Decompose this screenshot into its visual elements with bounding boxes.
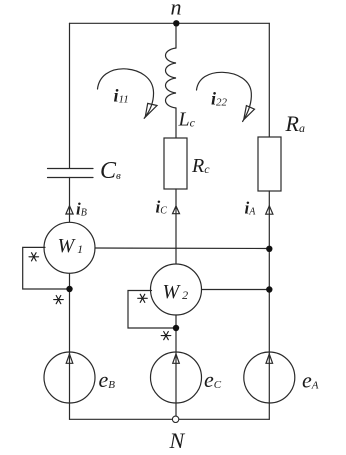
resistor Ra <box>258 137 281 191</box>
junction dot right rail at W2 wire <box>266 286 272 292</box>
wire resistor Ra to eA source <box>268 191 270 419</box>
arrow inside source eB <box>66 354 73 363</box>
wire top horizontal n rail <box>70 22 270 24</box>
capacitor Cv <box>48 169 94 178</box>
junction dot below W2 <box>173 325 179 331</box>
svg-text:Cв: Cв <box>100 158 121 184</box>
loop current arrow i22 arc <box>197 72 252 121</box>
asterisk mark W1 voltage terminal <box>29 253 39 261</box>
arrow current iB <box>66 206 73 214</box>
EMF source eB <box>44 352 95 403</box>
wire inductor Lc to resistor Rc <box>175 108 177 138</box>
resistor Rc <box>164 138 187 189</box>
wire middle branch n to inductor Lc <box>175 23 177 48</box>
svg-text:iB: iB <box>76 200 87 219</box>
svg-text:eC: eC <box>204 367 222 392</box>
junction dot below W1 <box>66 286 72 292</box>
svg-text:Ra: Ra <box>285 111 305 136</box>
arrow inside source eA <box>266 354 273 363</box>
loop current arrow i11 arc <box>98 69 154 119</box>
junction dot right rail at W1 wire <box>266 246 272 252</box>
loop current arrow i11 head <box>145 103 157 117</box>
wire capacitor Cv to wattmeter W1 <box>69 178 71 223</box>
svg-text:eB: eB <box>99 367 116 392</box>
wire left branch top (n rail to capacitor Cv) <box>69 23 71 168</box>
wire right branch top (n rail to resistor Ra) <box>268 23 270 137</box>
wire bottom horizontal N rail <box>70 418 270 420</box>
svg-text:i22: i22 <box>211 89 228 109</box>
wire W1 voltage coil bracket <box>23 247 70 289</box>
wire W1 current coil output to node A rail <box>95 247 269 250</box>
arrow inside source eC <box>173 354 180 363</box>
asterisk mark W2 current terminal <box>161 332 171 340</box>
EMF source eC <box>151 352 202 403</box>
asterisk mark W1 current terminal <box>54 296 64 304</box>
svg-text:Lc: Lc <box>178 109 196 131</box>
node n junction dot <box>173 20 179 26</box>
wattmeter W2 <box>151 264 202 315</box>
svg-text:iC: iC <box>156 198 168 217</box>
inductor Lc <box>166 48 177 108</box>
svg-text:n: n <box>171 0 182 20</box>
EMF source eA <box>244 352 295 403</box>
arrow current iA <box>266 206 273 214</box>
wire W2 current coil output to node A rail <box>202 289 270 291</box>
svg-text:i11: i11 <box>114 86 129 106</box>
loop current arrow i22 head <box>244 106 255 120</box>
arrow current iC <box>173 206 180 214</box>
svg-text:eA: eA <box>302 368 319 393</box>
wire W1 bottom to eB source <box>69 273 71 419</box>
wire W2 voltage coil bracket <box>128 291 176 329</box>
svg-text:Rc: Rc <box>191 155 210 177</box>
wire W2 bottom to eC source <box>175 315 177 419</box>
node N terminal circle <box>172 416 178 422</box>
svg-text:N: N <box>169 428 186 453</box>
asterisk mark W2 voltage terminal <box>138 294 148 302</box>
wire resistor Rc to wattmeter W2 <box>175 189 177 264</box>
svg-text:iA: iA <box>245 199 257 218</box>
wattmeter W1 <box>44 222 95 273</box>
